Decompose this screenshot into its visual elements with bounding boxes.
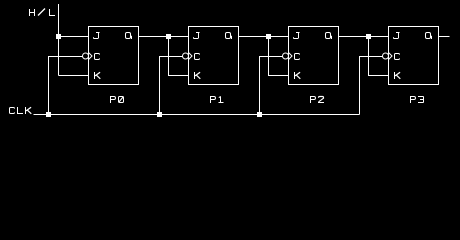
wire CLK riser 1 [160,57,183,115]
wire Q2 drop to K3 [369,37,389,76]
pin label Q (P2) [326,33,332,40]
pin label J (P1) [194,33,200,39]
wire H/L vertical [58,4,60,76]
wire Q0 drop to K1 [169,37,189,76]
pin label C (P3) [395,54,400,60]
pin label K (P1) [195,72,201,79]
flip-flop U1 (P0) box [89,27,139,85]
wire CLK riser 0 [49,57,83,115]
label CLK [10,107,32,114]
wire CLK bus [34,114,360,116]
pin label Q (P1) [226,33,232,40]
label P1 [211,97,224,104]
pin label J (P0) [94,33,100,39]
wire Q0 to J1 [139,36,189,38]
label H/L [30,9,56,17]
wire Q1 drop to K2 [269,37,289,76]
flip-flop U1 clock chevron [89,53,93,60]
node Q1 junction [266,34,271,39]
wire J0 [59,36,89,38]
node CLK junction 2 [257,112,262,117]
pin label C (P1) [195,54,200,60]
pin label Q (P0) [126,33,132,40]
node Q2 junction [366,34,371,39]
wire Q1 to J2 [239,36,289,38]
wire K0 [59,75,89,77]
label P0 [111,97,124,104]
pin label Q (P3) [426,33,432,40]
pin label K (P2) [295,72,301,79]
pin label J (P3) [394,33,400,39]
node J0 junction [56,34,61,39]
label P3 [411,97,424,104]
flip-flop U1 clock bubble [83,53,89,59]
node CLK junction 1 [157,112,162,117]
pin label C (P2) [295,54,300,60]
pin label K (P0) [95,72,101,79]
wire CLK riser 3 [360,57,383,115]
wire Q3 output stub [439,36,450,38]
flip-flop U4 clock chevron [389,53,393,60]
pin label C (P0) [95,54,100,60]
flip-flop U2 (P1) box [189,27,239,85]
flip-flop U4 (P3) box [389,27,439,85]
wire CLK riser 2 [260,57,283,115]
node Q0 junction [166,34,171,39]
wire Q2 to J3 [339,36,389,38]
flip-flop U3 clock chevron [289,53,293,60]
node CLK junction 0 [46,112,51,117]
pin label J (P2) [294,33,300,39]
flip-flop U2 clock bubble [183,53,189,59]
flip-flop U3 clock bubble [283,53,289,59]
pin label K (P3) [395,72,401,79]
label P2 [311,97,325,104]
flip-flop U4 clock bubble [383,53,389,59]
flip-flop U3 (P2) box [289,27,339,85]
flip-flop U2 clock chevron [189,53,193,60]
